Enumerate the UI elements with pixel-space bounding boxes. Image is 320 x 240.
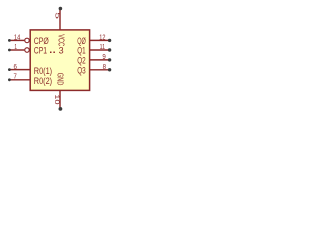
svg-text:6: 6 xyxy=(14,62,17,71)
svg-text:9: 9 xyxy=(102,52,105,61)
svg-text:8: 8 xyxy=(103,62,106,71)
pin 8 Q3 wire xyxy=(90,69,109,71)
pin end dot 9 xyxy=(108,58,111,61)
pin end dot 8 xyxy=(108,68,111,71)
svg-text:7: 7 xyxy=(14,72,17,81)
pin end dot 12 xyxy=(108,39,111,42)
svg-text:Q1: Q1 xyxy=(77,45,85,55)
pin 10 GND wire xyxy=(59,90,61,107)
svg-text:3: 3 xyxy=(59,45,64,55)
inversion bubble pin 1 xyxy=(25,48,30,53)
pin 9 Q2 wire xyxy=(90,59,109,61)
pin end dot 6 xyxy=(8,68,11,71)
svg-text:R0(1): R0(1) xyxy=(34,66,52,76)
svg-text:14: 14 xyxy=(14,32,20,41)
pin end dot 10 xyxy=(59,107,63,111)
pin 7 R0(2) wire xyxy=(10,79,30,81)
pin 6 R0(1) wire xyxy=(10,69,30,71)
pin end dot 5 xyxy=(59,7,63,11)
pin end dot 14 xyxy=(8,39,11,42)
svg-text:CP1: CP1 xyxy=(34,45,47,55)
pin end dot 1 xyxy=(8,49,11,52)
pin 5 VCC wire xyxy=(59,10,61,30)
svg-text:1: 1 xyxy=(14,42,17,51)
svg-text:11: 11 xyxy=(100,42,105,51)
IC body U1 xyxy=(30,30,89,91)
pin 12 Q0 wire xyxy=(90,39,109,41)
svg-text:GND: GND xyxy=(56,73,66,86)
pin end dot 11 xyxy=(108,48,111,51)
svg-text:12: 12 xyxy=(99,32,105,41)
svg-text:5: 5 xyxy=(53,12,60,19)
inversion bubble pin 14 xyxy=(25,38,30,43)
svg-text:R0(2): R0(2) xyxy=(34,76,52,86)
dots after CP1 xyxy=(50,52,52,54)
svg-text:10: 10 xyxy=(53,94,60,105)
pin end dot 7 xyxy=(8,78,11,81)
svg-text:Q2: Q2 xyxy=(77,55,86,65)
pin 14 CP0 wire xyxy=(10,39,24,41)
svg-text:Q3: Q3 xyxy=(77,65,86,75)
pin 11 Q1 wire xyxy=(90,49,109,51)
pin 1 CP1 wire xyxy=(10,49,24,51)
